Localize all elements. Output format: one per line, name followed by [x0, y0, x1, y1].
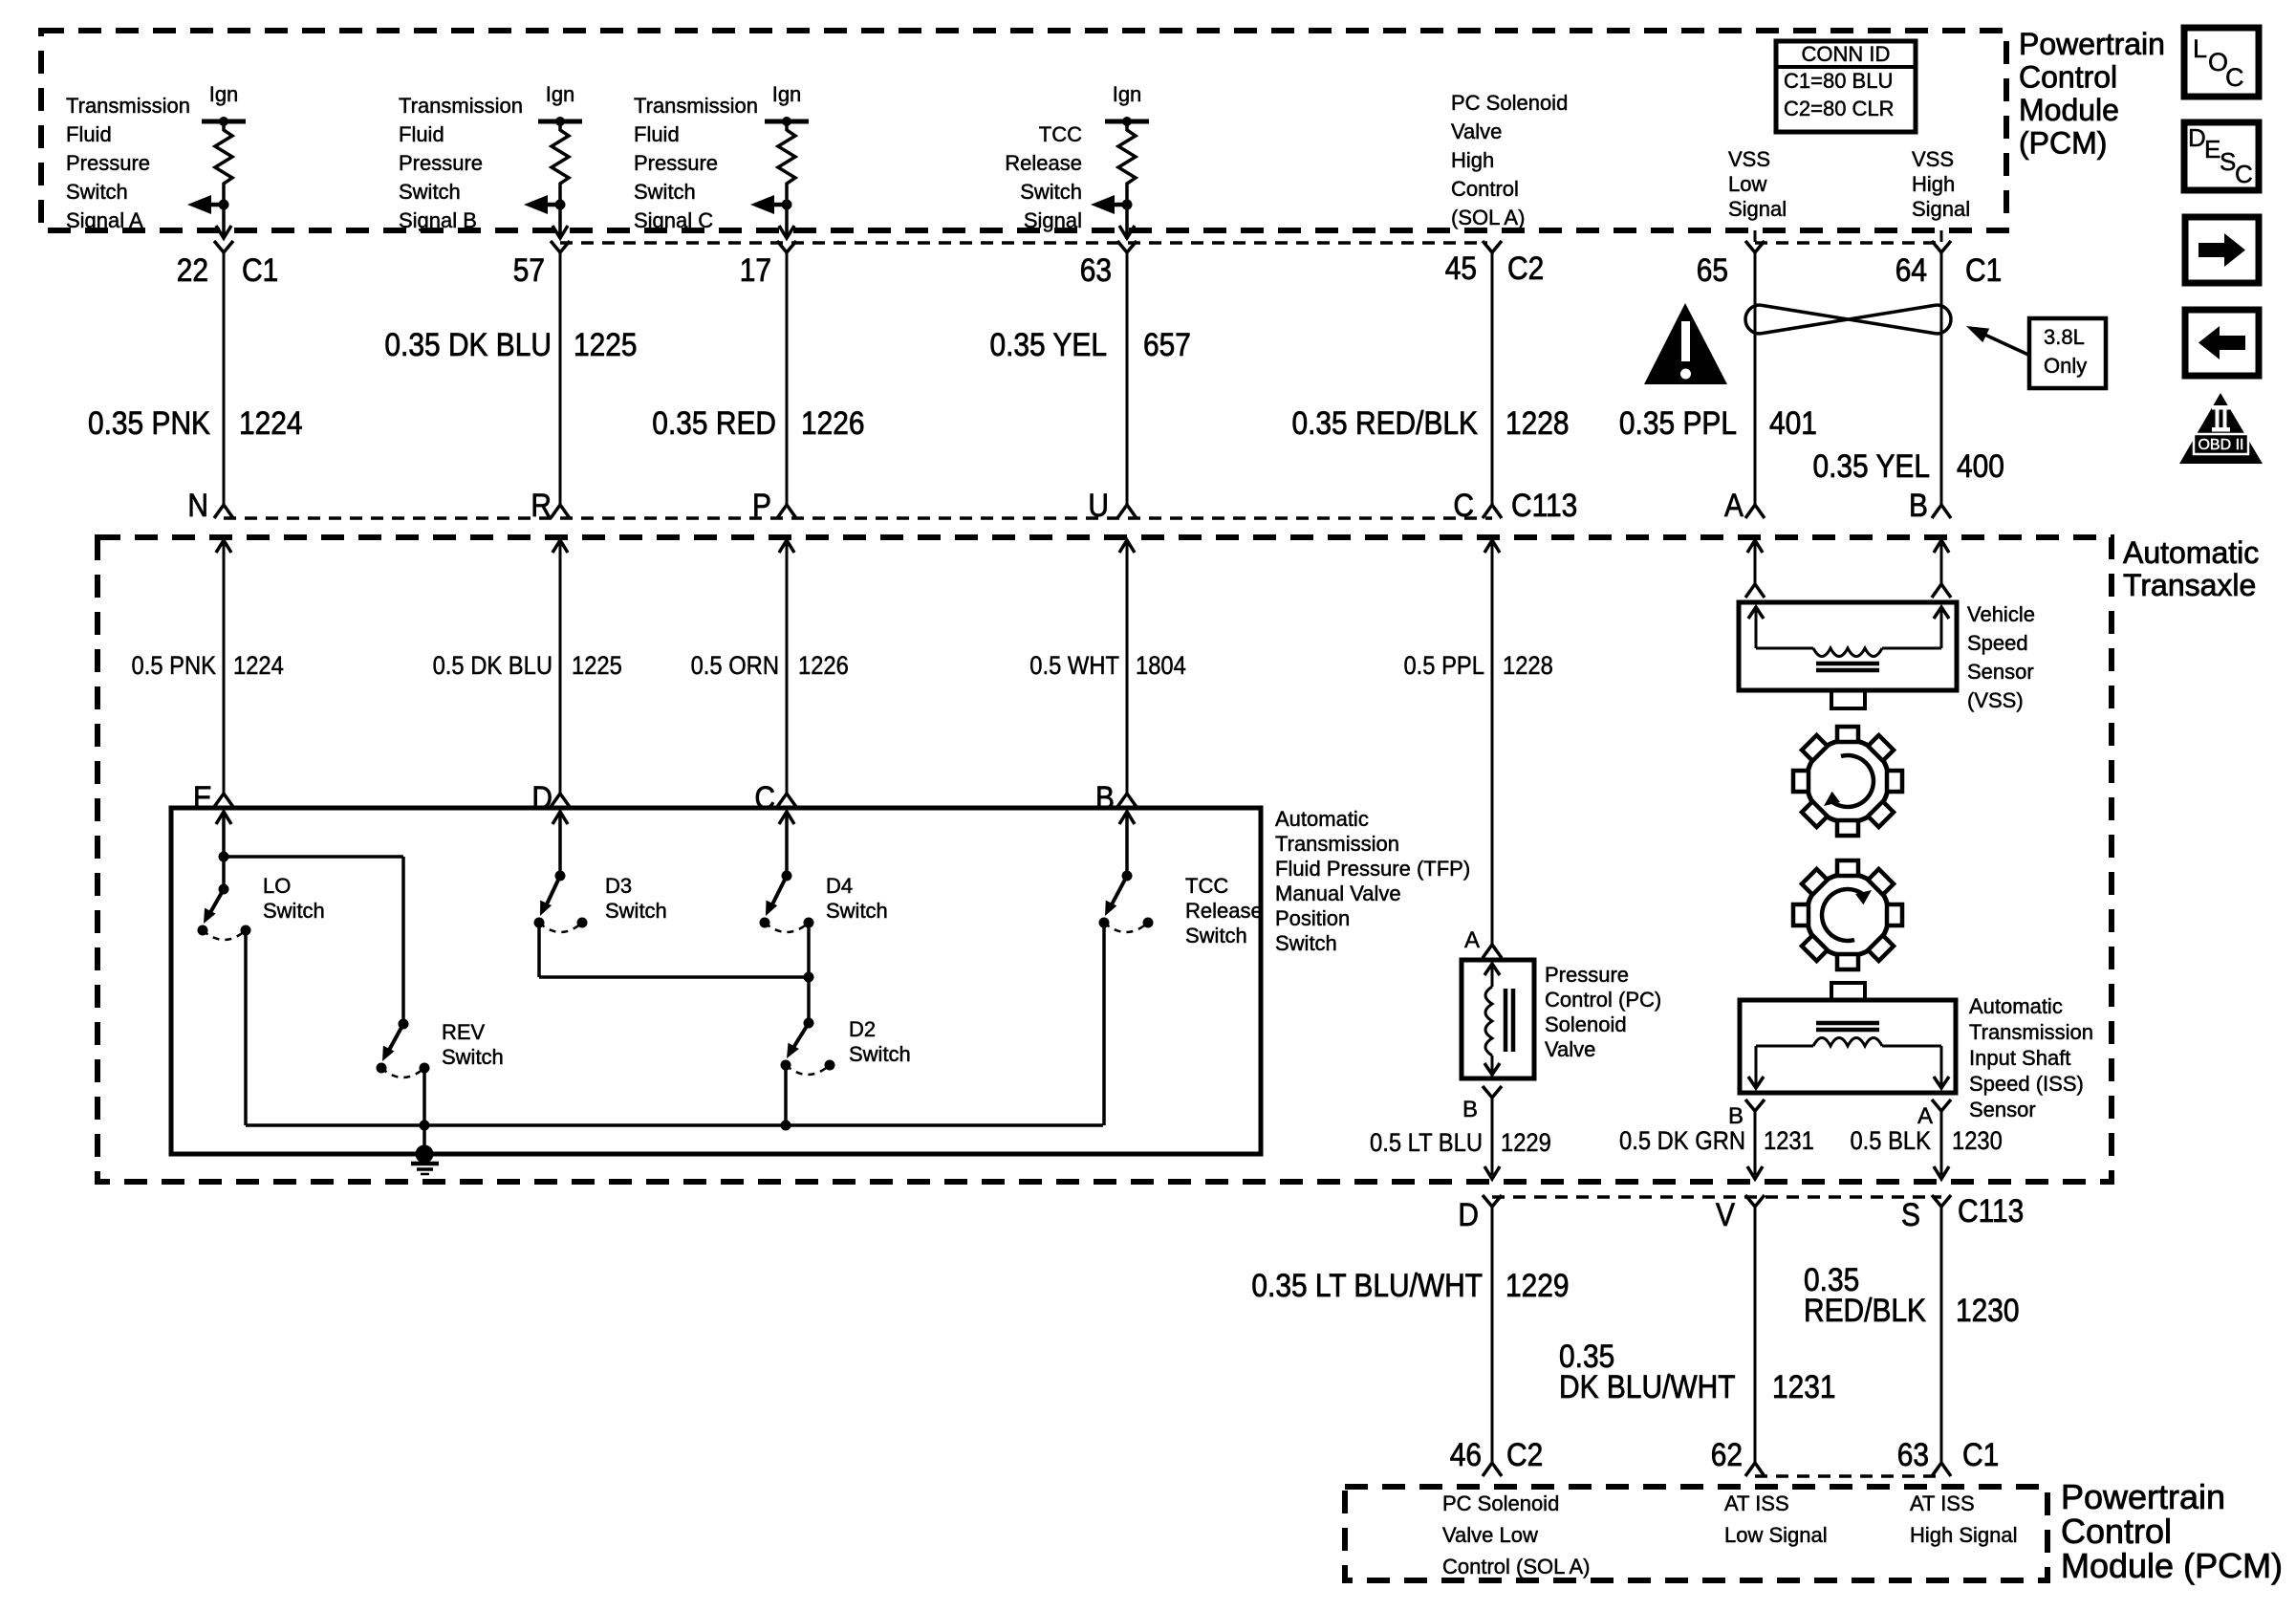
- svg-text:Vehicle: Vehicle: [1967, 602, 2035, 626]
- svg-text:(PCM): (PCM): [2019, 126, 2107, 161]
- svg-text:0.35 PNK: 0.35 PNK: [88, 404, 210, 441]
- svg-text:Control: Control: [2019, 60, 2117, 95]
- svg-text:1228: 1228: [1503, 652, 1553, 681]
- svg-text:Speed: Speed: [1967, 631, 2028, 655]
- svg-text:Pressure: Pressure: [399, 151, 483, 175]
- svg-text:1226: 1226: [801, 404, 865, 441]
- svg-text:1231: 1231: [1772, 1368, 1836, 1404]
- svg-text:Speed (ISS): Speed (ISS): [1969, 1072, 2084, 1096]
- svg-text:1230: 1230: [1952, 1127, 2003, 1156]
- svg-text:0.5 BLK: 0.5 BLK: [1850, 1127, 1931, 1156]
- svg-text:Signal: Signal: [1024, 208, 1082, 232]
- svg-text:657: 657: [1143, 326, 1191, 362]
- svg-text:B: B: [1462, 1097, 1478, 1122]
- svg-text:400: 400: [1957, 447, 2004, 484]
- svg-text:401: 401: [1769, 404, 1817, 441]
- svg-text:0.35 YEL: 0.35 YEL: [989, 326, 1107, 362]
- svg-text:VSS: VSS: [1912, 147, 1954, 171]
- svg-text:Low Signal: Low Signal: [1724, 1523, 1828, 1547]
- svg-text:1230: 1230: [1956, 1292, 2020, 1328]
- svg-text:Release: Release: [1185, 899, 1263, 923]
- svg-text:C2: C2: [1506, 1436, 1543, 1472]
- svg-text:Only: Only: [2044, 354, 2087, 378]
- svg-text:C: C: [754, 779, 775, 816]
- svg-text:AT ISS: AT ISS: [1910, 1491, 1975, 1515]
- svg-text:VSS: VSS: [1728, 147, 1770, 171]
- svg-text:D: D: [531, 779, 552, 816]
- svg-text:D4: D4: [826, 874, 853, 898]
- svg-text:Powertrain: Powertrain: [2019, 27, 2165, 61]
- svg-text:45: 45: [1445, 250, 1477, 286]
- svg-text:Ign: Ign: [546, 82, 575, 106]
- svg-text:High: High: [1912, 172, 1955, 196]
- svg-text:Transmission: Transmission: [1275, 832, 1399, 856]
- svg-text:62: 62: [1711, 1436, 1743, 1472]
- svg-text:1228: 1228: [1505, 404, 1570, 441]
- svg-text:Switch: Switch: [849, 1042, 911, 1066]
- svg-text:A: A: [1724, 487, 1744, 523]
- svg-text:High: High: [1451, 148, 1494, 172]
- svg-text:57: 57: [513, 251, 545, 288]
- svg-text:D: D: [1458, 1196, 1479, 1232]
- svg-text:DK BLU/WHT: DK BLU/WHT: [1559, 1368, 1735, 1404]
- svg-text:65: 65: [1697, 251, 1728, 288]
- svg-text:Powertrain: Powertrain: [2061, 1477, 2225, 1516]
- svg-text:0.5 PPL: 0.5 PPL: [1403, 652, 1484, 681]
- svg-text:3.8L: 3.8L: [2044, 325, 2085, 349]
- svg-text:Low: Low: [1728, 172, 1766, 196]
- svg-text:63: 63: [1080, 251, 1112, 288]
- svg-text:1224: 1224: [239, 404, 303, 441]
- svg-text:CONN ID: CONN ID: [1802, 42, 1891, 66]
- svg-text:Fluid Pressure (TFP): Fluid Pressure (TFP): [1275, 857, 1470, 881]
- svg-text:1804: 1804: [1136, 652, 1186, 681]
- svg-text:Signal C: Signal C: [634, 208, 713, 232]
- svg-text:D: D: [2188, 123, 2206, 152]
- svg-text:N: N: [187, 487, 208, 523]
- svg-text:Transmission: Transmission: [634, 94, 758, 118]
- svg-text:17: 17: [740, 251, 771, 288]
- svg-text:Switch: Switch: [826, 899, 888, 923]
- svg-text:1229: 1229: [1505, 1267, 1570, 1303]
- svg-text:A: A: [1917, 1103, 1933, 1129]
- svg-text:0.5 PNK: 0.5 PNK: [132, 652, 216, 681]
- svg-text:Signal: Signal: [1728, 197, 1787, 221]
- svg-text:E: E: [2204, 135, 2220, 163]
- svg-text:High Signal: High Signal: [1910, 1523, 2018, 1547]
- svg-text:Pressure: Pressure: [634, 151, 718, 175]
- svg-text:Switch: Switch: [605, 899, 667, 923]
- svg-text:S: S: [2220, 147, 2236, 176]
- svg-text:Transaxle: Transaxle: [2123, 568, 2256, 602]
- svg-text:D3: D3: [605, 874, 632, 898]
- svg-text:C2=80 CLR: C2=80 CLR: [1784, 97, 1895, 120]
- svg-text:RED/BLK: RED/BLK: [1804, 1292, 1926, 1328]
- svg-text:E: E: [193, 779, 212, 816]
- svg-text:Fluid: Fluid: [634, 122, 680, 146]
- svg-text:1229: 1229: [1501, 1129, 1551, 1158]
- svg-text:Module (PCM): Module (PCM): [2061, 1546, 2283, 1585]
- svg-text:1225: 1225: [574, 326, 638, 362]
- svg-text:Pressure: Pressure: [66, 151, 150, 175]
- svg-text:Sensor: Sensor: [1967, 660, 2034, 684]
- svg-text:Transmission: Transmission: [399, 94, 523, 118]
- svg-text:C: C: [2235, 160, 2253, 188]
- svg-text:64: 64: [1895, 251, 1927, 288]
- svg-text:Switch: Switch: [263, 899, 325, 923]
- svg-text:LO: LO: [263, 874, 291, 898]
- svg-text:Position: Position: [1275, 906, 1350, 930]
- svg-text:Transmission: Transmission: [66, 94, 190, 118]
- svg-text:REV: REV: [442, 1020, 486, 1044]
- svg-text:C1: C1: [1962, 1436, 1999, 1472]
- svg-text:Switch: Switch: [1185, 924, 1247, 947]
- svg-text:(SOL A): (SOL A): [1451, 206, 1525, 229]
- svg-text:PC Solenoid: PC Solenoid: [1451, 91, 1568, 115]
- svg-text:Switch: Switch: [1275, 931, 1337, 955]
- svg-text:Control: Control: [2061, 1512, 2172, 1551]
- svg-text:Signal A: Signal A: [66, 208, 143, 232]
- svg-text:0.35 DK BLU: 0.35 DK BLU: [384, 326, 552, 362]
- svg-text:C2: C2: [1507, 250, 1544, 286]
- svg-text:(VSS): (VSS): [1967, 688, 2024, 712]
- svg-text:0.35 PPL: 0.35 PPL: [1619, 404, 1737, 441]
- svg-text:22: 22: [177, 251, 208, 288]
- svg-text:Control (PC): Control (PC): [1545, 988, 1661, 1012]
- svg-text:Signal: Signal: [1912, 197, 1970, 221]
- svg-text:0.5 LT BLU: 0.5 LT BLU: [1370, 1129, 1483, 1158]
- svg-text:Switch: Switch: [399, 180, 461, 204]
- svg-text:0.5 DK GRN: 0.5 DK GRN: [1619, 1127, 1745, 1156]
- svg-text:TCC: TCC: [1185, 874, 1228, 898]
- svg-text:Ign: Ign: [209, 82, 239, 106]
- svg-text:0.5 DK BLU: 0.5 DK BLU: [433, 652, 552, 681]
- svg-text:1231: 1231: [1764, 1127, 1814, 1156]
- svg-text:V: V: [1716, 1196, 1736, 1232]
- svg-text:Switch: Switch: [442, 1045, 504, 1069]
- svg-text:Automatic: Automatic: [1275, 807, 1369, 831]
- svg-text:L: L: [2193, 34, 2207, 63]
- svg-text:OBD II: OBD II: [2198, 437, 2243, 453]
- svg-text:Valve: Valve: [1451, 120, 1502, 143]
- svg-text:C: C: [2225, 63, 2244, 92]
- svg-text:0.5 WHT: 0.5 WHT: [1029, 652, 1119, 681]
- svg-text:Automatic: Automatic: [1969, 994, 2063, 1018]
- svg-text:Automatic: Automatic: [2123, 535, 2259, 570]
- svg-text:Fluid: Fluid: [399, 122, 444, 146]
- svg-text:S: S: [1901, 1196, 1920, 1232]
- svg-text:Signal B: Signal B: [399, 208, 477, 232]
- svg-text:Fluid: Fluid: [66, 122, 112, 146]
- svg-text:Pressure: Pressure: [1545, 963, 1629, 987]
- svg-text:C113: C113: [1511, 487, 1577, 523]
- svg-text:PC Solenoid: PC Solenoid: [1442, 1491, 1559, 1515]
- svg-text:0.35 LT BLU/WHT: 0.35 LT BLU/WHT: [1251, 1267, 1483, 1303]
- svg-text:C113: C113: [1958, 1192, 2024, 1229]
- svg-text:0.35 YEL: 0.35 YEL: [1812, 447, 1930, 484]
- svg-text:46: 46: [1450, 1436, 1482, 1472]
- svg-text:TCC: TCC: [1039, 122, 1082, 146]
- svg-text:Valve Low: Valve Low: [1442, 1523, 1538, 1547]
- svg-text:B: B: [1095, 779, 1115, 816]
- svg-text:Switch: Switch: [66, 180, 128, 204]
- svg-text:C1: C1: [242, 251, 278, 288]
- svg-text:Switch: Switch: [1020, 180, 1082, 204]
- svg-text:Manual Valve: Manual Valve: [1275, 882, 1401, 905]
- svg-text:Release: Release: [1005, 151, 1082, 175]
- svg-text:0.35 RED/BLK: 0.35 RED/BLK: [1291, 404, 1478, 441]
- svg-text:1226: 1226: [798, 652, 849, 681]
- svg-text:0.35 RED: 0.35 RED: [652, 404, 776, 441]
- svg-text:Solenoid: Solenoid: [1545, 1012, 1627, 1036]
- svg-text:1224: 1224: [233, 652, 284, 681]
- svg-text:Sensor: Sensor: [1969, 1098, 2036, 1121]
- svg-text:Control: Control: [1451, 177, 1519, 201]
- svg-text:Switch: Switch: [634, 180, 696, 204]
- svg-text:A: A: [1464, 927, 1480, 953]
- svg-text:C1=80 BLU: C1=80 BLU: [1784, 69, 1893, 93]
- svg-text:Ign: Ign: [1113, 82, 1142, 106]
- svg-text:Ign: Ign: [772, 82, 802, 106]
- svg-text:B: B: [1728, 1103, 1744, 1129]
- svg-text:1225: 1225: [572, 652, 622, 681]
- svg-text:Valve: Valve: [1545, 1037, 1595, 1061]
- svg-text:Module: Module: [2019, 93, 2119, 127]
- svg-text:AT ISS: AT ISS: [1724, 1491, 1789, 1515]
- svg-text:63: 63: [1897, 1436, 1929, 1472]
- svg-text:C1: C1: [1965, 251, 2002, 288]
- svg-text:Input Shaft: Input Shaft: [1969, 1046, 2070, 1070]
- svg-text:0.5 ORN: 0.5 ORN: [691, 652, 779, 681]
- svg-text:B: B: [1909, 487, 1928, 523]
- svg-text:Control (SOL A): Control (SOL A): [1442, 1555, 1590, 1578]
- svg-text:Transmission: Transmission: [1969, 1020, 2093, 1044]
- svg-text:D2: D2: [849, 1017, 876, 1041]
